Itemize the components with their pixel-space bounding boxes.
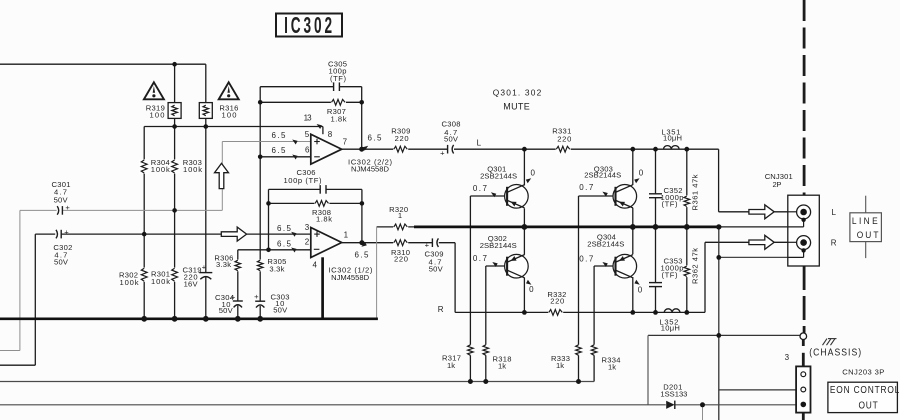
svg-text:5: 5 — [305, 130, 310, 139]
svg-text:13: 13 — [304, 114, 313, 123]
svg-text:(CHASSIS): (CHASSIS) — [809, 347, 862, 359]
svg-text:6.5: 6.5 — [272, 131, 287, 140]
svg-text:6.5: 6.5 — [277, 239, 292, 248]
svg-text:R: R — [831, 239, 837, 248]
svg-text:220: 220 — [394, 254, 408, 263]
svg-text:100k: 100k — [183, 165, 202, 174]
svg-text:+: + — [231, 293, 236, 302]
svg-text:16V: 16V — [184, 279, 199, 288]
svg-text:50V: 50V — [273, 306, 288, 315]
svg-text:+: + — [64, 227, 69, 236]
svg-text:CNJ203 3P: CNJ203 3P — [842, 368, 884, 377]
svg-text:R: R — [438, 305, 444, 314]
svg-text:+: + — [254, 292, 259, 301]
svg-text:1k: 1k — [447, 361, 455, 370]
svg-text:100p (TF): 100p (TF) — [284, 176, 322, 185]
svg-text:+: + — [202, 263, 207, 272]
svg-text:IC302: IC302 — [284, 14, 335, 40]
svg-text:0: 0 — [638, 286, 643, 295]
svg-text:1k: 1k — [608, 362, 616, 371]
svg-text:0: 0 — [639, 168, 644, 177]
svg-text:+: + — [425, 240, 430, 249]
svg-text:OUT: OUT — [857, 230, 881, 240]
svg-text:(TF): (TF) — [330, 74, 346, 83]
svg-text:8: 8 — [328, 130, 333, 139]
svg-text:3.3k: 3.3k — [216, 260, 231, 269]
svg-text:OUT: OUT — [858, 400, 878, 411]
svg-text:EON CONTROL: EON CONTROL — [830, 384, 900, 395]
svg-text:(TF): (TF) — [662, 200, 678, 209]
svg-text:L: L — [477, 139, 482, 148]
svg-text:50V: 50V — [429, 265, 444, 274]
svg-text:+: + — [65, 203, 70, 212]
svg-text:1SS133: 1SS133 — [660, 390, 687, 399]
svg-text:1.8k: 1.8k — [331, 115, 347, 124]
svg-text:0.7: 0.7 — [473, 254, 488, 263]
svg-text:(TF): (TF) — [662, 270, 678, 279]
svg-text:0.7: 0.7 — [579, 254, 594, 263]
svg-text:1: 1 — [344, 230, 349, 239]
svg-text:100: 100 — [150, 111, 165, 120]
svg-text:10μH: 10μH — [663, 134, 682, 143]
svg-text:50V: 50V — [444, 134, 459, 143]
svg-text:6.5: 6.5 — [368, 133, 383, 142]
svg-text:7: 7 — [343, 137, 348, 146]
svg-text:6.5: 6.5 — [277, 224, 292, 233]
svg-text:6: 6 — [305, 145, 310, 154]
svg-text:2P: 2P — [773, 180, 782, 189]
svg-text:50V: 50V — [54, 257, 69, 266]
svg-text:0.7: 0.7 — [473, 184, 488, 193]
svg-text:0: 0 — [530, 169, 535, 178]
svg-text:4: 4 — [312, 261, 317, 270]
svg-text:2SB2144S: 2SB2144S — [480, 171, 517, 180]
svg-text:3.3k: 3.3k — [269, 265, 284, 274]
svg-text:2SB2144S: 2SB2144S — [480, 241, 517, 250]
svg-text:2: 2 — [305, 238, 310, 247]
svg-text:Q301. 302: Q301. 302 — [493, 87, 542, 97]
svg-text:1.8k: 1.8k — [316, 214, 332, 223]
svg-text:100k: 100k — [151, 165, 170, 174]
svg-text:100k: 100k — [151, 277, 170, 286]
svg-text:NJM4558D: NJM4558D — [351, 165, 390, 174]
svg-text:6.5: 6.5 — [272, 146, 287, 155]
svg-text:100: 100 — [222, 111, 237, 120]
svg-text:2SB2144S: 2SB2144S — [587, 239, 624, 248]
svg-text:6.5: 6.5 — [355, 250, 370, 259]
svg-text:0.7: 0.7 — [579, 183, 594, 192]
svg-text:1k: 1k — [498, 361, 506, 370]
svg-text:3: 3 — [305, 223, 310, 232]
svg-text:10μH: 10μH — [661, 324, 680, 333]
svg-text:1: 1 — [398, 211, 402, 220]
svg-text:220: 220 — [550, 296, 564, 305]
svg-text:NJM4558D: NJM4558D — [331, 273, 370, 282]
svg-text:2SB2144S: 2SB2144S — [584, 171, 621, 180]
svg-text:MUTE: MUTE — [503, 101, 530, 111]
svg-text:LINE: LINE — [852, 216, 880, 226]
svg-text:3: 3 — [785, 353, 790, 362]
svg-text:1k: 1k — [556, 361, 564, 370]
svg-text:0: 0 — [529, 285, 534, 294]
svg-text:L: L — [831, 208, 836, 217]
svg-text:+: + — [440, 148, 445, 157]
svg-text:100k: 100k — [120, 278, 139, 287]
svg-text:220: 220 — [395, 134, 409, 143]
svg-text:R362 47k: R362 47k — [691, 248, 700, 284]
svg-text:220: 220 — [557, 134, 571, 143]
svg-text:50V: 50V — [219, 306, 234, 315]
svg-text:R361 47k: R361 47k — [691, 174, 700, 210]
